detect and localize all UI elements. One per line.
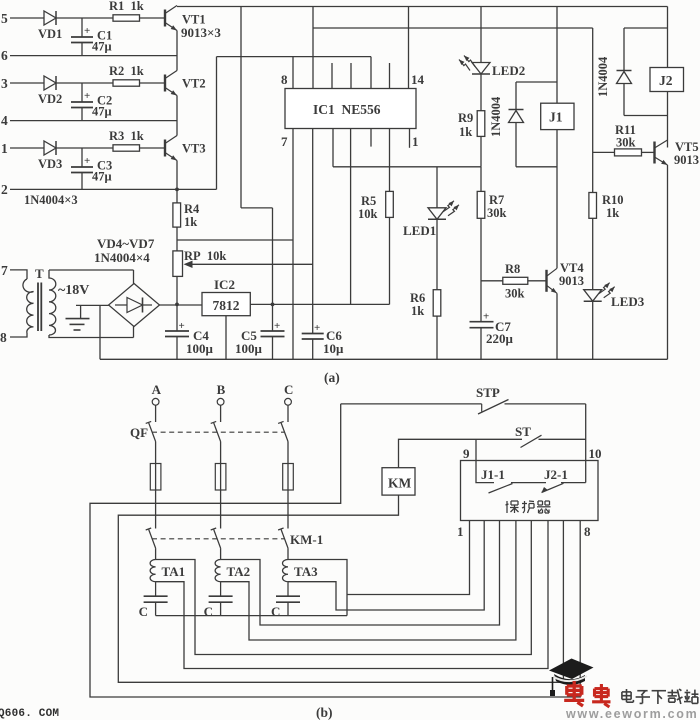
transistor VT1 [165,6,177,31]
svg-text:J2: J2 [659,73,673,88]
wire VT5 emitter to bus [667,165,669,359]
contact J2-1 [542,483,586,493]
wire pin8 rail [217,56,372,58]
wire diode VD1 to resistor R1 [56,17,113,19]
current transformer TA coil C [282,560,288,597]
wire J2 bottom bracket [624,115,668,117]
svg-text:VT5: VT5 [675,140,699,154]
svg-text:(b): (b) [316,705,333,720]
resistor R7 30k [477,191,485,218]
transistor VT4 [547,268,558,293]
svg-text:T: T [35,266,44,281]
terminal circle A [152,398,159,405]
wire C7 node to R8 [481,280,503,282]
svg-text:VD3: VD3 [38,157,62,171]
capacitor C1 47u [71,25,93,43]
watermark graduation cap [549,659,594,697]
wire R6 to bus [436,316,438,359]
svg-text:~18V: ~18V [58,283,89,298]
svg-text:VD4~VD7: VD4~VD7 [97,236,155,251]
transistor VT5 [655,140,668,165]
svg-text:10μ: 10μ [323,341,344,356]
wire QF to fuse B [220,442,222,464]
wire node to capacitor C2 [81,83,83,102]
wire pin7 branch to R4/RP node [177,239,293,241]
svg-text:7: 7 [1,263,8,278]
wire rail y28 [313,27,593,29]
wire R10 to LED3 [592,218,594,289]
svg-text:7: 7 [281,134,288,149]
svg-text:9: 9 [463,446,470,461]
svg-text:Q606. COM: Q606. COM [0,708,59,720]
wire C5 to bus [272,337,274,360]
wire top rail right corner down [667,7,669,68]
svg-text:R5: R5 [361,194,376,208]
svg-text:C: C [204,604,213,619]
wire resistor R2 to transistor VT2 base [140,82,165,84]
wire IC1 pin14 to top rail [408,7,410,89]
wire STP right [505,403,586,405]
terminal circle C [285,398,292,405]
wire fuse through C [287,464,289,491]
svg-text:9013: 9013 [674,153,699,167]
wire IC1 top pin drop [370,57,372,89]
wire node to riser [177,188,217,190]
breaker QF pole B [211,421,221,441]
dashed link KM-1 [152,538,284,540]
watermark chongchong red [564,681,610,707]
svg-text:VD2: VD2 [38,92,62,106]
svg-text:R1 1k: R1 1k [109,0,144,13]
relay J2 [650,68,684,92]
svg-text:1k: 1k [459,125,472,139]
wire KM-1 to TA C [287,548,289,559]
wire diode VD3 to resistor R3 [56,147,113,149]
fuse B [215,464,226,491]
svg-text:8: 8 [0,330,7,345]
wire fuse through A [155,464,157,491]
contactor KM-1 pole B [211,528,221,548]
svg-text:9013×3: 9013×3 [181,25,221,40]
wire gnd line to bus riser [99,305,101,359]
wire resistor R1 to transistor VT1 base [140,17,165,19]
wire KM-1 to TA B [220,548,222,559]
capacitor C5 100u [261,320,285,337]
breaker QF pole C [278,421,288,441]
dashed link QF [152,431,284,433]
svg-text:1: 1 [1,141,8,156]
resistor R3 1k [113,145,140,151]
IC1 top stub pins [332,63,390,89]
wire TA2 top tap [221,521,500,626]
svg-text:www.eeworm.com: www.eeworm.com [565,707,698,720]
svg-text:C: C [284,382,293,397]
svg-text:9013: 9013 [559,274,584,288]
wire pin9 column [476,439,494,482]
wire riser to pin8 rail [216,57,218,190]
resistor R6 1k [433,290,441,316]
wire line 6 [10,55,177,57]
wire R11 to VT5 base [642,151,654,153]
wire secondary bottom [49,335,134,338]
wire VT4 collector to J1 [556,130,558,269]
wire node to R11 [593,151,615,153]
svg-text:LED3: LED3 [611,294,645,309]
resistor R2 1k [113,80,140,86]
svg-text:+: + [84,25,90,37]
wire node to capacitor C3 [81,148,83,167]
wire fuse to KM-1 C [287,490,289,529]
wire resistor R3 to transistor VT3 base [140,147,165,149]
stop button STP [478,400,509,415]
wire bridge top riser [133,270,135,284]
wire y28 rail drop x592.7 [592,28,594,193]
svg-text:1N4004: 1N4004 [596,56,610,97]
svg-text:B: B [217,382,226,397]
wire IC2 ground pin [225,316,227,360]
svg-text:+: + [84,155,90,167]
wire TA2 bottom tap [221,521,516,641]
wire terminal 3 to diode VD2 [10,82,44,84]
junction IC2 out / C5 [271,303,275,307]
wire capacitor C2 to line 4 [81,108,83,121]
wire R8 to VT4 base [528,280,546,282]
svg-text:+: + [314,322,320,334]
svg-text:STP: STP [476,385,500,400]
svg-text:R2 1k: R2 1k [109,64,144,78]
svg-text:220μ: 220μ [486,331,514,346]
svg-text:47μ: 47μ [92,105,112,119]
svg-text:R7: R7 [489,193,504,207]
svg-text:3: 3 [1,76,8,91]
svg-text:VT3: VT3 [182,142,206,156]
transformer secondary winding [49,270,56,335]
wire node to capacitor C1 [81,18,83,37]
wire rail y28 J2 segment [624,27,668,29]
diode 1N4004 (J2) [617,28,632,116]
svg-text:TA3: TA3 [294,564,318,579]
wire terminal 5 to diode VD1 [10,17,44,19]
wire mid rail [333,166,481,168]
svg-text:+: + [179,320,185,332]
svg-text:VD1: VD1 [38,27,62,41]
current transformer TA coil A [150,560,156,597]
svg-text:J1: J1 [549,110,563,125]
svg-text:C: C [271,604,280,619]
wire line 2 [10,188,177,190]
svg-text:LED2: LED2 [492,63,525,78]
wire C6 to bus [312,339,314,359]
svg-text:1: 1 [412,134,419,149]
wire pin10 column [585,404,587,483]
svg-text:30k: 30k [487,206,507,220]
wire IC1 pin column x389.5 upper [389,129,391,192]
wire C7 to bus [480,328,482,360]
svg-text:10: 10 [589,446,602,461]
resistor R11 30k [615,149,642,156]
svg-text:+: + [84,90,90,102]
wire cap C to common [287,602,289,615]
protector box [461,461,599,521]
wire IC1 pin8 drop [292,57,294,89]
transistor VT3 [165,136,177,161]
wire QF to fuse C [287,442,289,464]
wire top rail drop x241 [240,7,242,208]
wire J1 top bracket [516,81,557,83]
wire IC2 output rail [250,303,389,305]
resistor R5 10k [386,191,394,217]
wire bridge bottom riser [133,327,135,338]
svg-text:1k: 1k [411,304,424,318]
wire pin1 line [347,521,470,595]
svg-text:IC1 NE556: IC1 NE556 [313,102,381,117]
wire mid rail to LED1 [436,167,438,208]
wire QF to fuse A [155,442,157,464]
wire ground line to bridge [76,304,109,306]
wire STP left [341,403,482,405]
wire terminal 7 to primary [10,270,27,279]
transformer T primary winding [23,279,34,333]
wire J1 branch from top rail [556,7,558,104]
wire IC1 pin column x312.7 [312,129,314,334]
diode VD1 [44,11,56,25]
svg-text:8: 8 [584,524,591,539]
capacitor C4 100u [165,320,189,337]
start button ST [521,435,542,447]
LED1 [428,201,459,220]
wire VT4 emitter to bus [556,293,558,359]
wire terminal 1 to diode VD3 [10,147,44,149]
svg-text:TA1: TA1 [162,564,186,579]
fuse A [150,464,161,491]
wire fuse to KM-1 B [220,490,222,529]
resistor R4 1k [173,203,181,227]
svg-text:+: + [274,320,280,332]
junction RP/bridge/C4 [175,303,179,307]
bridge inner diode [115,298,152,313]
svg-text:+: + [483,311,489,323]
svg-text:1N4004×4: 1N4004×4 [94,250,150,265]
contact J1-1 [489,483,547,493]
capacitor C A [144,596,168,602]
wire capacitor C1 to line 6 [81,43,83,56]
wire RP to bridge node [176,276,178,304]
wire C5 top [272,304,274,331]
wire TA3 bottom tap [288,521,484,611]
wire secondary top to bridge [49,269,134,271]
svg-text:47μ: 47μ [92,170,112,184]
relay J1 [541,103,574,129]
transformer core [38,283,41,332]
resistor R8 30k [503,277,528,284]
wire C4 to bus [176,337,178,360]
LED3 [584,283,615,302]
transistor VT2 [165,71,177,96]
resistor R9 1k [477,111,485,137]
svg-text:2: 2 [1,182,8,197]
wire emitter chain VT3 to node [176,161,178,190]
svg-text:47μ: 47μ [92,40,112,54]
wire C to QF [287,405,289,422]
svg-text:R6: R6 [410,291,425,305]
fuse C [283,464,294,491]
wire IC1 pin to mid rail corner [332,129,334,167]
svg-text:1: 1 [457,524,464,539]
svg-text:R4: R4 [184,202,200,216]
wire jog to x272 [241,207,273,209]
ground [66,305,90,330]
wire TA1 bottom tap [156,521,548,669]
diode VD2 [44,76,56,90]
label baohuqi (protector) [506,501,551,513]
wire cap A to common [155,602,157,615]
svg-text:100μ: 100μ [186,341,214,356]
wire primary to terminal 8 [10,333,27,337]
svg-text:LED1: LED1 [403,223,436,238]
terminal circle B [217,398,224,405]
svg-text:R10: R10 [602,193,624,207]
svg-text:QF: QF [130,425,148,440]
breaker QF pole A [146,421,156,441]
op-amp/timer IC1 NE556 [285,89,416,129]
svg-text:J2-1: J2-1 [544,467,568,482]
wire J1 bottom bracket [516,166,557,168]
wire B to QF [220,405,222,422]
svg-text:10k: 10k [358,207,378,221]
regulator IC2 7812 [202,293,250,316]
capacitor C B [209,596,233,602]
svg-text:R9: R9 [458,111,473,125]
wire ST left [399,439,523,467]
wire R4 to RP [176,227,178,251]
svg-text:C: C [139,604,148,619]
wire diode VD2 to resistor R2 [56,82,113,84]
wire IC1 pin column x350.6 [350,129,352,305]
wire +V top rail [177,6,668,8]
wire TA1 top tap [156,521,532,655]
wire emitter chain VT1-VT2 [176,31,178,71]
svg-text:100μ: 100μ [235,341,263,356]
wire emitter chain VT2-VT3 [176,96,178,136]
wire IC1 pin7 column [292,129,294,360]
svg-text:KM: KM [388,476,412,491]
svg-text:5: 5 [1,11,8,26]
wire capacitor C3 to line 2 [81,173,83,190]
svg-text:VT4: VT4 [560,261,584,275]
wire mid rail to R7 [480,167,482,192]
wire x272 down to IC2 output [272,208,274,305]
capacitor C3 47u [71,155,93,173]
potentiometer RP 10k [173,251,183,277]
wire capacitor common [156,615,347,617]
svg-text:TA2: TA2 [227,564,251,579]
svg-text:J1-1: J1-1 [481,467,505,482]
wire line 4 [10,120,177,122]
capacitor C6 10u [302,322,324,339]
svg-text:7812: 7812 [213,298,240,313]
wire LED2 to R9 [480,74,482,111]
wire fuse to KM-1 A [155,490,157,529]
svg-text:ST: ST [515,424,531,439]
resistor R10 1k [589,193,597,219]
current transformer TA coil B [215,560,221,597]
svg-text:6: 6 [1,48,8,63]
svg-text:R8: R8 [505,262,520,276]
wire TA3 top tap [288,560,347,616]
wire bridge to IC2 input [160,304,203,306]
capacitor C C [276,596,300,602]
capacitor C2 47u [71,90,93,108]
svg-text:8: 8 [281,72,288,87]
svg-text:14: 14 [411,72,425,87]
wire LED2 branch from top rail [480,7,482,63]
svg-text:(a): (a) [324,370,340,385]
svg-text:VT2: VT2 [182,77,206,91]
svg-text:1N4004×3: 1N4004×3 [24,193,78,207]
wire R5 to IC2 out rail [389,217,391,304]
wire J2 bottom to VT5 collector [667,92,669,148]
capacitor C7 220u [470,311,494,328]
wire STP loop outer [90,404,580,697]
svg-text:1k: 1k [184,215,197,229]
wire R9 to mid rail [480,136,482,166]
svg-text:KM-1: KM-1 [290,532,323,547]
RP wiper arrow [184,261,313,268]
watermark dianzixiazaizhan [622,689,699,704]
svg-text:30k: 30k [505,287,525,301]
svg-text:30k: 30k [616,136,636,150]
wire R7 to C7 [480,218,482,321]
wire cap B to common [220,602,222,615]
resistor R1 1k [113,15,140,21]
svg-text:4: 4 [1,113,8,128]
contactor coil KM [382,468,415,495]
wire ground bus [100,358,668,360]
bridge rectifier VD4~VD7 [109,284,160,327]
svg-text:R3 1k: R3 1k [109,129,144,143]
LED2 [459,56,490,75]
wire fuse through B [220,464,222,491]
wire ST right [539,438,586,440]
wire LED1 to R6 [436,219,438,289]
wire LED3 to bus [592,301,594,359]
wire node to C4 [176,304,178,331]
contactor KM-1 pole A [146,528,156,548]
wire KM coil bottom loop [118,495,563,682]
diode VD3 [44,141,56,155]
svg-text:IC2: IC2 [214,277,235,292]
junction node line2/R4 [175,188,179,192]
svg-text:1k: 1k [606,206,619,220]
contactor KM-1 pole C [278,528,288,548]
IC1 bottom stub pins [371,129,410,148]
wire A to QF [155,405,157,422]
svg-text:RP 10k: RP 10k [184,249,226,263]
diode 1N4004 (J1) [509,82,524,167]
wire IC1 pin13 to top rail [312,7,314,89]
svg-text:A: A [152,382,162,397]
wire KM-1 to TA A [155,548,157,559]
svg-text:1N4004: 1N4004 [489,96,503,137]
wire node to R4 [176,189,178,203]
